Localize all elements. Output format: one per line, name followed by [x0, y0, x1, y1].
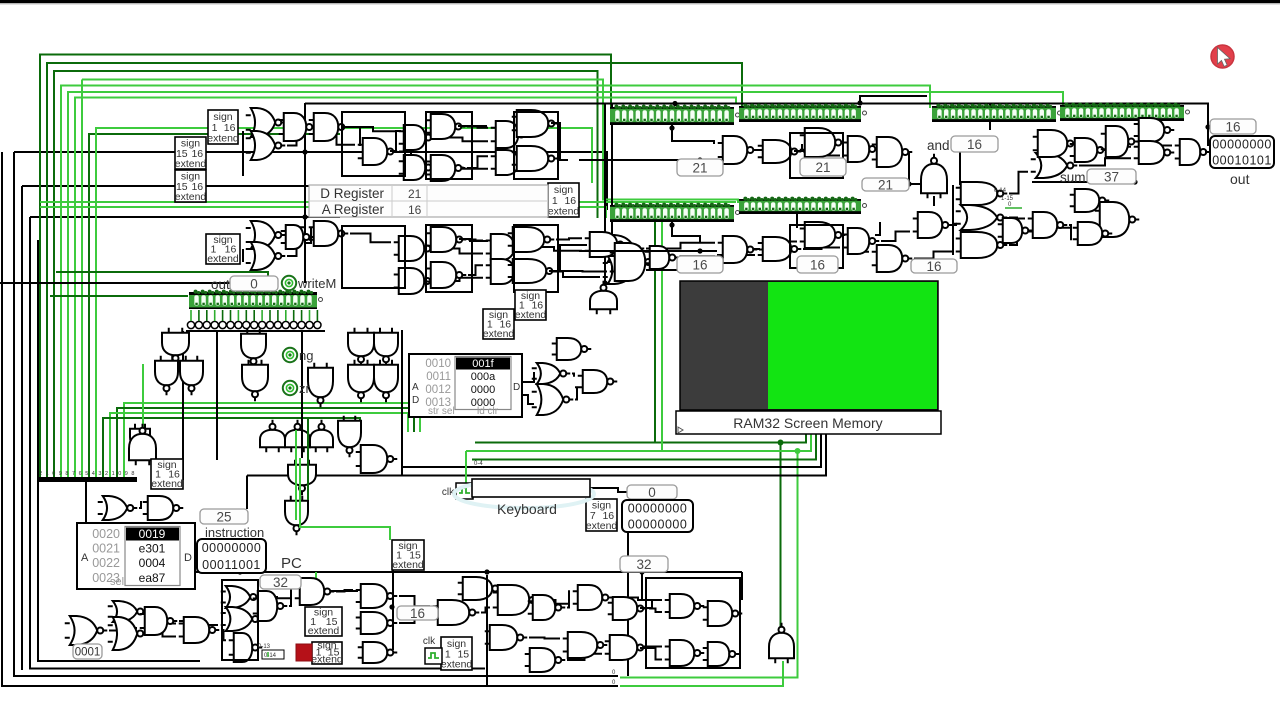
- NAND gate U60: [528, 595, 566, 620]
- svg-text:extend: extend: [392, 559, 424, 571]
- NAND gate U37: [998, 218, 1033, 243]
- wire latch loop 3: [426, 225, 472, 292]
- NAND gate (down) D13: [338, 416, 361, 458]
- NAND gate U58: [458, 577, 503, 600]
- wire green bundle 3: [54, 71, 598, 477]
- svg-text:zr: zr: [299, 381, 311, 396]
- wire green bundle 1: [40, 55, 611, 478]
- svg-text:0-14: 0-14: [264, 653, 277, 659]
- wire mid verticals 217: [216, 331, 218, 460]
- wire green bundle 7 riser: [81, 80, 83, 478]
- sign extend box SE3: [175, 170, 207, 203]
- NAND gate U70: [665, 640, 705, 666]
- wire under circle row: [186, 330, 325, 332]
- wire trunk PC1: [392, 567, 394, 650]
- svg-text:0022: 0022: [92, 556, 120, 570]
- sign extend box SE13: [151, 459, 183, 490]
- NAND gate (up) V6: [590, 281, 617, 315]
- NAND gate U10: [491, 150, 529, 175]
- wire pc bus: [160, 571, 742, 573]
- svg-text:00010101: 00010101: [1212, 154, 1272, 168]
- svg-text:21: 21: [815, 160, 830, 175]
- wire left frame outermost: [2, 152, 618, 686]
- svg-text:2: 2: [105, 471, 108, 477]
- NAND gate U71: [703, 642, 740, 666]
- NAND gate U33: [800, 222, 846, 248]
- NAND gate U22: [585, 232, 628, 257]
- NAND gate (down) D14: [130, 424, 150, 458]
- junction i: [672, 101, 677, 106]
- sign extend box SE4: [548, 183, 580, 218]
- LED strip row2 a: [610, 203, 740, 222]
- wire left frame 3: [21, 186, 23, 670]
- svg-text:00011001: 00011001: [202, 558, 261, 572]
- svg-text:21: 21: [692, 160, 707, 175]
- top letterbox bar: [0, 0, 1280, 4]
- svg-text:0001: 0001: [75, 647, 101, 659]
- svg-text:ld clr: ld clr: [477, 406, 499, 417]
- sign extend box SE9: [392, 540, 424, 571]
- wire screen vertical dark: [780, 443, 782, 631]
- wire green row y202: [40, 201, 736, 203]
- wire trunk ALU8: [875, 222, 880, 235]
- wire trunk TL9: [549, 245, 587, 271]
- svg-text:37: 37: [1104, 169, 1119, 184]
- tiny probe box pc: [262, 650, 284, 659]
- svg-text:7: 7: [72, 471, 75, 477]
- svg-text:extend: extend: [483, 328, 515, 340]
- NAND gate U24: [718, 136, 758, 164]
- wire trunk PC2: [486, 575, 488, 686]
- NAND gate U41: [1095, 202, 1140, 237]
- clock input K1: [442, 483, 473, 499]
- sign extend box SE11: [311, 640, 343, 666]
- wire left frame 5: [38, 240, 200, 661]
- wire screen green dark1: [475, 434, 806, 443]
- wire pc green v: [315, 572, 317, 600]
- wire green quad 2: [117, 408, 414, 477]
- NAND gate (down) D1: [162, 328, 189, 366]
- NAND gate U56: [229, 633, 263, 662]
- svg-text:16: 16: [692, 257, 707, 272]
- NAND gate (down) D3: [180, 356, 203, 396]
- NAND gate (down) D10: [374, 360, 398, 403]
- wire left frame 4: [30, 217, 485, 669]
- junction b: [302, 214, 307, 219]
- wire screen black2: [247, 434, 826, 476]
- LED zr: [283, 381, 311, 396]
- NAND gate U36: [956, 232, 1008, 258]
- NOR gate G14: [532, 363, 571, 384]
- NAND gate U17: [426, 262, 467, 288]
- wire writeM drop green: [300, 458, 390, 540]
- LED strip row1 b: [739, 104, 867, 122]
- svg-text:32: 32: [273, 575, 288, 590]
- sign extend box SE7: [483, 309, 515, 340]
- value box 16 pc2: [397, 606, 438, 621]
- NAND gate U65: [563, 632, 608, 658]
- value box 32 pc: [260, 575, 301, 590]
- svg-text:0: 0: [250, 276, 258, 291]
- NAND gate (up) V2: [285, 420, 310, 453]
- label PC: [281, 555, 302, 572]
- LED strip row1 a: [610, 105, 740, 125]
- NOR gate G1: [246, 108, 286, 137]
- NAND gate U9: [512, 110, 559, 137]
- junction row1 long: [697, 157, 702, 162]
- wire latch loop 5: [790, 133, 843, 178]
- svg-text:e301: e301: [139, 542, 166, 556]
- NAND gate U34: [843, 228, 880, 254]
- NAND gate U19: [508, 227, 555, 252]
- svg-text:9: 9: [125, 471, 128, 477]
- NAND gate U23: [610, 243, 656, 281]
- screen block: [680, 281, 938, 410]
- svg-text:32: 32: [636, 557, 651, 572]
- NAND gate U46: [1134, 118, 1175, 142]
- NAND gate (down) D11: [288, 460, 316, 496]
- svg-text:ng: ng: [299, 348, 313, 363]
- wire latch loop 2: [514, 112, 558, 179]
- wire trunk TL1: [242, 131, 244, 176]
- label sum: [1060, 170, 1086, 185]
- wire green v 296: [295, 430, 297, 520]
- NAND gate U61: [573, 585, 613, 610]
- value box sum37: [1087, 169, 1136, 184]
- wire green row y207: [40, 207, 606, 218]
- wire strip-to-pins greens: [191, 310, 317, 321]
- svg-text:16: 16: [967, 137, 982, 152]
- LED ng: [283, 348, 314, 363]
- wire strip drops b: [796, 214, 798, 228]
- junction strip c: [669, 222, 674, 227]
- junction f: [639, 569, 644, 574]
- wire and box drop: [959, 152, 961, 185]
- NAND gate U29: [872, 245, 913, 272]
- svg-text:ea87: ea87: [139, 571, 166, 585]
- svg-text:0011: 0011: [426, 371, 451, 383]
- wire keyboard drop: [465, 451, 467, 483]
- svg-text:extend: extend: [207, 253, 239, 265]
- wire trunk out-row: [0, 282, 230, 284]
- NAND gate U2: [309, 113, 349, 141]
- NAND gate U49: [143, 496, 184, 520]
- value box 16 b: [797, 256, 838, 273]
- wire trunk PC5: [640, 647, 655, 649]
- keyboard binary display: [622, 500, 693, 532]
- NOR gate G16: [956, 205, 1008, 230]
- RAM32 Screen Memory label box: [676, 411, 941, 434]
- NAND gate U73: [552, 338, 592, 360]
- NOR gate G6: [603, 256, 645, 284]
- wire screen green bright1: [466, 434, 811, 451]
- svg-text:5: 5: [85, 471, 88, 477]
- NAND gate (down) D9: [348, 360, 374, 403]
- wire green v 308: [307, 418, 309, 500]
- svg-text:PC: PC: [281, 555, 302, 572]
- svg-text:D: D: [412, 395, 419, 406]
- NAND gate U52: [253, 591, 288, 621]
- NAND gate (up) V3: [310, 420, 333, 453]
- value box 32 right: [620, 556, 668, 572]
- svg-text:00000000: 00000000: [1212, 138, 1272, 152]
- wire latch loop 9: [646, 578, 740, 668]
- wire left frame 2: [14, 152, 618, 676]
- RAM data memory box: [409, 354, 522, 417]
- NAND gate U48: [1175, 139, 1211, 165]
- wire alu stack trunk: [952, 185, 954, 255]
- value box 21 b: [800, 158, 846, 176]
- NAND gate U5: [426, 114, 466, 139]
- wire latch loop 10: [222, 580, 258, 660]
- svg-text:001f: 001f: [472, 358, 494, 370]
- wire pc frame: [641, 572, 643, 600]
- svg-text:6: 6: [79, 471, 82, 477]
- junction screen bright: [795, 448, 801, 454]
- mouse cursor: [1211, 45, 1234, 68]
- svg-text:sel: sel: [110, 576, 124, 588]
- svg-text:writeM: writeM: [297, 276, 336, 291]
- wire ribbon tap: [85, 481, 87, 523]
- wire trunk ALU6: [754, 248, 760, 250]
- NAND gate U11: [512, 146, 559, 171]
- wire RAM connect: [522, 372, 534, 382]
- wire row2 strip to ram a: [654, 222, 656, 443]
- value box out16: [1210, 119, 1256, 134]
- NAND gate U1: [279, 113, 317, 141]
- wire screen green dark2: [472, 434, 816, 460]
- svg-text:3: 3: [98, 471, 101, 477]
- svg-text:16: 16: [410, 606, 425, 621]
- svg-text:str sel: str sel: [428, 406, 455, 417]
- NAND gate U53: [295, 578, 335, 605]
- wire bundle left ext: [246, 476, 248, 510]
- NAND gate U30: [645, 246, 680, 269]
- instruction ROM box: [77, 523, 195, 589]
- NAND gate (down) D7: [348, 328, 374, 367]
- junction g: [389, 604, 394, 609]
- svg-text:extend: extend: [175, 158, 207, 170]
- LED strip row2 b: [739, 197, 867, 214]
- svg-text:4: 4: [92, 471, 95, 477]
- junction ALU3: [906, 181, 911, 186]
- NAND gate U13: [309, 221, 349, 246]
- wire left frame 2 top run: [14, 152, 607, 210]
- wire green y272: [56, 272, 268, 280]
- wire latch loop 1: [426, 112, 472, 179]
- NAND gate (down) D12: [285, 496, 308, 536]
- junction row2 long: [697, 248, 702, 253]
- wire black mid drop 605: [604, 103, 606, 283]
- NAND gate U6: [399, 155, 436, 180]
- sign extend box SE1: [207, 110, 239, 145]
- wire green quad 4: [103, 418, 360, 477]
- svg-text:Keyboard: Keyboard: [497, 501, 557, 517]
- sign extend box SE6: [515, 290, 547, 321]
- svg-text:16: 16: [926, 259, 941, 274]
- value box and16: [951, 136, 998, 152]
- NAND gate U39: [913, 212, 953, 238]
- wire left frame 3 top run: [22, 185, 368, 187]
- NOR gate G5: [603, 235, 645, 262]
- svg-text:sum: sum: [1060, 170, 1086, 185]
- svg-text:A Register: A Register: [322, 202, 385, 217]
- junction a: [302, 149, 307, 154]
- NAND gate (up) V7: [769, 623, 794, 664]
- NAND gate U25: [758, 140, 802, 163]
- NAND gate U51: [179, 617, 220, 643]
- NAND gate U3: [358, 138, 398, 165]
- NAND gate U42: [1073, 222, 1113, 245]
- wire screen black1: [402, 434, 821, 467]
- wire trunk TL2: [341, 127, 360, 146]
- wire green quad 1: [124, 403, 420, 477]
- NOR gate G9: [108, 601, 148, 622]
- NAND gate U74: [578, 370, 618, 393]
- svg-text:2: 2: [39, 471, 42, 477]
- value box 0 kb: [627, 485, 677, 500]
- wire green bundle 6: [75, 98, 736, 478]
- svg-text:extend: extend: [311, 653, 343, 665]
- wire writeM drop: [301, 331, 303, 458]
- wire trunk TL7: [459, 239, 488, 241]
- svg-text:and: and: [927, 138, 950, 153]
- NAND gate (down) D4: [241, 329, 266, 369]
- svg-text:A: A: [412, 382, 419, 393]
- NOR gate G13: [98, 496, 138, 520]
- value box 16 c: [911, 259, 957, 274]
- svg-text:16: 16: [810, 257, 825, 272]
- wire trunk TL8: [551, 123, 568, 160]
- wire green quad 3: [110, 413, 408, 477]
- NAND gate U62: [608, 597, 648, 620]
- wire screen vertical bright: [620, 451, 798, 678]
- svg-text:25: 25: [216, 509, 231, 524]
- wire top bus right drop: [989, 103, 991, 130]
- NAND gate U40: [1070, 189, 1110, 212]
- wire RAM connect2: [522, 395, 534, 404]
- svg-text:out: out: [211, 277, 230, 292]
- svg-text:0-14: 0-14: [994, 188, 1007, 194]
- sign extend box SE2: [175, 137, 207, 170]
- NAND gate U20: [486, 259, 525, 284]
- NAND gate U59: [493, 585, 540, 615]
- svg-text:extend: extend: [207, 133, 239, 145]
- value box 0001: [73, 644, 102, 659]
- NAND gate (up) V1: [260, 420, 285, 453]
- sign extend box SE12: [441, 637, 473, 671]
- wire trunk ALU2: [933, 196, 935, 206]
- NAND gate U55: [356, 612, 398, 634]
- svg-text:1: 1: [112, 471, 115, 477]
- svg-text:00000000: 00000000: [628, 502, 688, 516]
- wire keyboard-bus: [401, 330, 403, 476]
- svg-text:16: 16: [1225, 119, 1240, 134]
- wire trunk ALU4: [794, 144, 802, 151]
- pin circle row: [187, 321, 321, 328]
- wire latch loop 7: [342, 112, 405, 176]
- svg-text:8: 8: [65, 471, 68, 477]
- NAND gate U66: [605, 635, 648, 660]
- svg-text:8: 8: [131, 471, 134, 477]
- NAND gate U57: [433, 600, 480, 625]
- value box out0: [230, 276, 278, 291]
- wire top bus drop left: [304, 103, 306, 283]
- svg-text:9: 9: [59, 471, 62, 477]
- wire green zr-down: [142, 364, 144, 428]
- junction j: [1132, 179, 1137, 184]
- clock input K2: [423, 636, 442, 664]
- NAND gate U45: [1101, 126, 1139, 157]
- wire trunk TL4: [458, 125, 487, 127]
- NOR gate G15: [532, 384, 574, 415]
- wire trunk TL3: [390, 131, 401, 151]
- NAND gate (down) D5: [242, 360, 268, 402]
- svg-text:00000000: 00000000: [628, 518, 688, 532]
- junction screen dark: [778, 440, 784, 446]
- red stop square: [296, 644, 312, 661]
- label and: [927, 138, 950, 153]
- tiny probe green: [1005, 202, 1022, 208]
- NAND gate U21: [508, 259, 557, 283]
- NAND gate U72: [356, 445, 398, 473]
- NAND gate U54: [356, 584, 398, 608]
- NAND gate U15: [426, 227, 467, 252]
- output display out: [1210, 136, 1274, 187]
- tiny label 0-13: [258, 644, 271, 650]
- wire row1 long: [579, 159, 717, 161]
- svg-text:0: 0: [648, 485, 656, 500]
- wire green y296: [50, 295, 188, 297]
- NAND gate U68: [665, 594, 705, 618]
- svg-text:21: 21: [408, 187, 422, 201]
- svg-text:16: 16: [408, 203, 422, 217]
- value box 25: [200, 509, 248, 524]
- svg-text:extend: extend: [548, 206, 580, 218]
- svg-text:extend: extend: [515, 309, 547, 321]
- wire strip drops a: [672, 125, 714, 144]
- svg-text:clk: clk: [423, 636, 436, 647]
- svg-text:extend: extend: [151, 478, 183, 490]
- wire trunk TL6: [242, 249, 244, 262]
- sign extend box SE10: [305, 607, 342, 637]
- svg-text:A: A: [81, 552, 89, 564]
- NOR gate G2: [246, 131, 286, 160]
- wire latch loop 6: [790, 225, 843, 268]
- NAND gate U43: [1033, 130, 1078, 157]
- NOR gate G11: [221, 586, 261, 608]
- NAND gate U32: [758, 237, 802, 261]
- wire trunk PC3: [330, 590, 358, 592]
- NAND gate U7: [426, 155, 466, 181]
- wire green bundle 2: [47, 63, 742, 477]
- wire row2 strip to ram b: [661, 222, 663, 451]
- wire gate interconnect mesh: [109, 120, 1172, 660]
- wire green bundle 7: [82, 80, 738, 204]
- svg-text:0: 0: [52, 471, 55, 477]
- svg-text:D: D: [513, 382, 520, 393]
- svg-text:extend: extend: [175, 191, 207, 203]
- NAND gate U47: [1134, 141, 1175, 164]
- LED strip writeM: [189, 290, 323, 309]
- svg-text:21: 21: [878, 177, 893, 192]
- wire kb right: [590, 488, 627, 492]
- NAND gate U16: [394, 268, 435, 294]
- svg-text:1: 1: [46, 471, 49, 477]
- svg-text:0000: 0000: [471, 384, 495, 396]
- wire strip drops c: [672, 222, 700, 242]
- NAND gate U8: [491, 121, 529, 148]
